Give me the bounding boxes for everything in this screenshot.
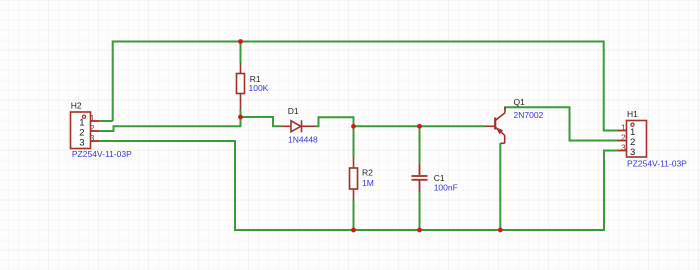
resistor R2 xyxy=(350,158,358,200)
svg-text:H1: H1 xyxy=(627,109,638,119)
H1 pin1 marker xyxy=(631,123,634,126)
svg-text:1: 1 xyxy=(90,113,95,123)
diode D1 xyxy=(282,120,316,132)
svg-text:1N4448: 1N4448 xyxy=(288,135,318,145)
junction node A xyxy=(238,115,243,120)
junction Q1 source rail xyxy=(498,228,503,233)
wire R1 bottom to node A xyxy=(240,110,242,119)
H2 pin1 marker xyxy=(82,115,85,118)
wire C1 bottom to bottom rail xyxy=(419,192,421,230)
svg-text:PZ254V-11-03P: PZ254V-11-03P xyxy=(72,149,132,159)
svg-text:2N7002: 2N7002 xyxy=(514,110,544,120)
svg-text:100K: 100K xyxy=(249,83,269,93)
junction C1 bottom rail xyxy=(417,228,422,233)
junction node B xyxy=(351,124,356,129)
svg-text:R2: R2 xyxy=(362,168,373,178)
svg-text:1: 1 xyxy=(621,123,626,133)
wire node A to diode anode xyxy=(241,117,282,126)
svg-text:3: 3 xyxy=(621,143,626,153)
H1 pin stubs xyxy=(618,131,627,151)
svg-text:D1: D1 xyxy=(288,106,299,116)
Q1 arrow xyxy=(496,127,503,134)
wire node B down to R2 xyxy=(353,126,355,158)
svg-text:3: 3 xyxy=(630,147,635,158)
wire H2 pin1 to top rail xyxy=(99,120,113,122)
connector H1 xyxy=(618,121,647,159)
svg-text:3: 3 xyxy=(90,133,95,143)
wire node C down to C1 xyxy=(419,126,421,163)
capacitor C1 xyxy=(412,164,428,193)
wire top rail xyxy=(113,42,618,131)
svg-text:1M: 1M xyxy=(362,178,374,188)
wire H2 pin2 to node A xyxy=(99,117,241,131)
H2 pin stubs xyxy=(91,121,100,141)
junction dot at R1 top xyxy=(238,39,243,44)
svg-text:H2: H2 xyxy=(71,101,82,111)
junction node C xyxy=(417,124,422,129)
junction R2 bottom rail xyxy=(351,228,356,233)
svg-text:PZ254V-11-03P: PZ254V-11-03P xyxy=(627,159,687,169)
connector H2 xyxy=(71,112,100,149)
svg-text:2: 2 xyxy=(90,123,95,133)
svg-text:3: 3 xyxy=(79,138,84,149)
svg-text:Q1: Q1 xyxy=(514,97,526,107)
wire Q1 source to bottom rail xyxy=(499,143,501,230)
wire R2 bottom to bottom rail xyxy=(353,200,355,230)
wire node B to node C to Q1 gate xyxy=(354,125,487,127)
wire diode cathode to node B xyxy=(316,117,354,126)
wire H2 pin3 to bottom rail xyxy=(99,141,618,230)
wire R1 top lead to rail xyxy=(240,42,242,64)
svg-text:100nF: 100nF xyxy=(434,182,458,192)
resistor R1 xyxy=(237,63,245,110)
svg-text:2: 2 xyxy=(621,133,626,143)
wire Q1 drain to H1 pin2 xyxy=(505,107,618,140)
transistor Q1 xyxy=(486,108,505,144)
